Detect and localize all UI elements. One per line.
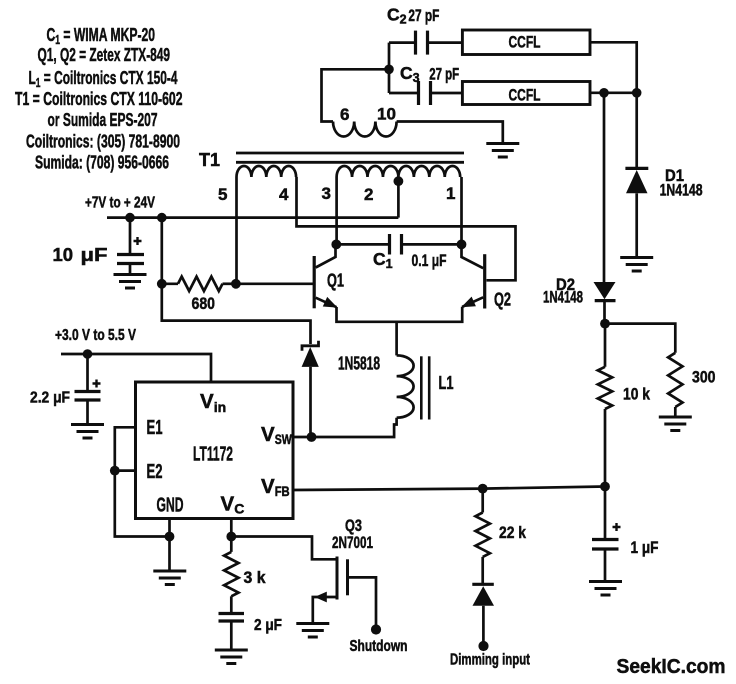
pin label 10 bbox=[377, 105, 396, 124]
svg-text:2.2 μF: 2.2 μF bbox=[30, 390, 70, 407]
node 680/pin5/Q1 base bbox=[231, 279, 241, 289]
wire winding pin 10 to ground bbox=[397, 122, 503, 143]
value label 2.2 uF bbox=[30, 390, 70, 407]
node Shutdown terminal bbox=[371, 624, 381, 634]
wire C2 left lead bbox=[389, 41, 416, 44]
pin label 5 bbox=[218, 185, 227, 204]
svg-text:1: 1 bbox=[446, 184, 455, 203]
ground (GND pin) bbox=[153, 571, 186, 585]
value label 10 uF bbox=[53, 244, 108, 265]
pin label 3 bbox=[322, 184, 331, 203]
svg-text:Coiltronics: (305) 781-8900: Coiltronics: (305) 781-8900 bbox=[26, 131, 180, 152]
svg-text:or Sumida EPS-207: or Sumida EPS-207 bbox=[48, 109, 158, 130]
value label 1N5818 bbox=[338, 354, 380, 374]
wire rail drop to 680 bbox=[160, 218, 163, 284]
svg-text:0.1 μF: 0.1 μF bbox=[412, 251, 447, 270]
node D1 top bbox=[632, 88, 642, 98]
wire GND pin bbox=[168, 519, 171, 570]
node +3V/2.2uF bbox=[83, 349, 93, 359]
label C3 bbox=[400, 63, 420, 85]
svg-text:SeekIC.com: SeekIC.com bbox=[617, 656, 726, 678]
op-amp U1 LT1172 body bbox=[136, 382, 294, 519]
pin label Vin bbox=[200, 390, 226, 415]
wire emitter rail bbox=[337, 307, 463, 322]
value label 1 uF bbox=[631, 538, 659, 557]
svg-text:10 k: 10 k bbox=[623, 385, 650, 404]
value label 1N4148 (D1) bbox=[660, 182, 703, 200]
resistor 680 bbox=[178, 277, 223, 291]
svg-text:Q3: Q3 bbox=[345, 517, 362, 535]
wire C1 left lead bbox=[336, 243, 389, 246]
value label 1N4148 (D2) bbox=[543, 289, 583, 307]
svg-text:6: 6 bbox=[340, 105, 349, 124]
svg-text:5: 5 bbox=[218, 185, 227, 204]
value label 2N7001 bbox=[332, 534, 373, 552]
supply label +7V to +24V bbox=[85, 195, 155, 212]
svg-text:4: 4 bbox=[279, 185, 289, 204]
label D2 bbox=[556, 276, 575, 294]
pin label 2 bbox=[364, 185, 373, 204]
svg-text:CCFL: CCFL bbox=[509, 87, 541, 105]
ground (1uF) bbox=[589, 582, 622, 596]
node GND bbox=[165, 532, 175, 542]
label T1 bbox=[199, 150, 220, 170]
resistor 10k bbox=[598, 367, 612, 409]
transistor Q3 source bbox=[313, 592, 337, 622]
plus mark (10uF) bbox=[134, 237, 142, 245]
node Q2 collector bbox=[457, 240, 467, 250]
label L1 bbox=[439, 373, 454, 393]
diode 1N5818 (schottky) bbox=[302, 341, 319, 367]
svg-text:Q1, Q2 = Zetex ZTX-849: Q1, Q2 = Zetex ZTX-849 bbox=[38, 44, 171, 65]
label Dimming input bbox=[450, 652, 530, 669]
svg-text:E1: E1 bbox=[147, 417, 163, 439]
svg-text:300: 300 bbox=[692, 368, 716, 387]
transistor Q1 collector bbox=[316, 244, 336, 267]
node E1/E2 bbox=[110, 466, 120, 476]
pin label E2 bbox=[147, 461, 163, 483]
transformer T1 primary winding 5-4 bbox=[237, 166, 297, 177]
inductor L1 core bbox=[421, 356, 429, 419]
svg-text:2N7001: 2N7001 bbox=[332, 534, 373, 552]
capacitor 10uF bbox=[117, 255, 144, 264]
capacitor C3 27pF bbox=[419, 81, 431, 105]
wire +3V node to 2.2uF bbox=[86, 354, 89, 392]
wire C2/C3 node to winding pin 6 bbox=[322, 69, 390, 121]
node Dimming input terminal bbox=[478, 641, 488, 651]
node Vc bbox=[226, 532, 236, 542]
pin label GND bbox=[157, 495, 184, 517]
svg-text:Sumida: (708) 956-0666: Sumida: (708) 956-0666 bbox=[35, 152, 169, 173]
capacitor 2.2uF bbox=[75, 392, 101, 401]
wire 680 left lead bbox=[162, 282, 178, 285]
label Q3 bbox=[345, 517, 362, 535]
ground (Q3 source) bbox=[296, 624, 329, 638]
wire 10uF to ground bbox=[129, 264, 132, 274]
wire 22k to dimming diode bbox=[481, 557, 484, 584]
wire 680 right lead bbox=[223, 282, 237, 285]
svg-text:L1 = Coiltronics CTX 150-4: L1 = Coiltronics CTX 150-4 bbox=[29, 67, 178, 90]
diode D2 1N4148 bbox=[594, 282, 616, 301]
node Vfb/22k bbox=[478, 484, 488, 494]
transistor Q3 gate bar bbox=[346, 559, 349, 595]
wire C2 to CCFL1 bbox=[428, 41, 463, 44]
plus mark (1uF) bbox=[613, 523, 621, 531]
svg-text:2 μF: 2 μF bbox=[254, 617, 282, 634]
svg-text:3 k: 3 k bbox=[244, 568, 266, 587]
diode D1 1N4148 bbox=[625, 168, 648, 193]
resistor 22k bbox=[476, 513, 490, 557]
svg-text:E2: E2 bbox=[147, 461, 163, 483]
ground (2uF) bbox=[215, 650, 248, 664]
value label 3 k bbox=[244, 568, 266, 587]
wire node to 22k bbox=[481, 489, 484, 513]
svg-text:10: 10 bbox=[377, 105, 396, 124]
wire D1 top lead bbox=[635, 93, 638, 168]
wire rail to 10uF bbox=[129, 218, 132, 255]
wire Vc node to 3k bbox=[230, 537, 233, 552]
wire +7V rail bbox=[107, 216, 398, 219]
svg-text:1N4148: 1N4148 bbox=[660, 182, 703, 200]
lamp CCFL1 (top) bbox=[462, 30, 590, 55]
ground (300) bbox=[659, 417, 692, 431]
ground (winding 10) bbox=[486, 144, 519, 158]
pin label Vsw bbox=[261, 423, 292, 447]
svg-text:T1: T1 bbox=[199, 150, 220, 170]
transformer T1 primary winding 3-2-1 bbox=[337, 166, 461, 177]
wire node to 300 bbox=[605, 324, 675, 353]
svg-text:1N5818: 1N5818 bbox=[338, 354, 380, 374]
pin label Vfb bbox=[261, 475, 290, 499]
label Shutdown bbox=[350, 638, 408, 655]
wire pin 3 down bbox=[335, 177, 338, 244]
svg-text:Shutdown: Shutdown bbox=[350, 638, 408, 655]
value label 680 bbox=[192, 294, 216, 313]
svg-text:3: 3 bbox=[322, 184, 331, 203]
pin label 4 bbox=[279, 185, 289, 204]
node HV return bbox=[599, 88, 609, 98]
value label 2 uF bbox=[254, 617, 282, 634]
wire Vfb to feedback node bbox=[293, 487, 605, 491]
plus mark (2.2uF) bbox=[93, 380, 101, 388]
svg-text:27 pF: 27 pF bbox=[408, 6, 439, 25]
wire base node to Q1 base bbox=[236, 282, 313, 285]
svg-text:LT1172: LT1172 bbox=[193, 443, 233, 466]
capacitor C2 27pF bbox=[416, 31, 428, 55]
label D1 bbox=[665, 167, 684, 185]
wire C3 left lead bbox=[389, 92, 419, 95]
wire Vsw pin bbox=[293, 436, 312, 439]
wire Vc node to Q3 drain bbox=[231, 537, 337, 560]
wire 1uF to ground bbox=[604, 549, 607, 580]
svg-text:Q2: Q2 bbox=[494, 290, 511, 310]
value label 27 pF (C3) bbox=[429, 65, 459, 84]
capacitor 1uF bbox=[592, 540, 619, 550]
wire 1N5818 to Vsw node bbox=[309, 367, 312, 437]
transistor Q2 collector bbox=[462, 244, 484, 268]
value label 0.1 uF bbox=[412, 251, 447, 270]
wire 3k to 2uF bbox=[230, 596, 233, 613]
pin label 6 bbox=[340, 105, 349, 124]
svg-text:T1 = Coiltronics CTX 110-602: T1 = Coiltronics CTX 110-602 bbox=[15, 88, 183, 109]
wire +3V to Vin bbox=[61, 354, 211, 382]
node rail/10uF bbox=[125, 213, 135, 223]
label Q1 bbox=[327, 271, 344, 291]
transistor Q1 base bar bbox=[313, 256, 316, 308]
transistor Q3 channel bar bbox=[336, 557, 339, 600]
wire L1 to Vsw node bbox=[312, 418, 397, 437]
transistor Q2 emitter bbox=[461, 297, 483, 308]
wire Q3 gate to shutdown bbox=[348, 577, 377, 625]
wire 2.2uF to ground bbox=[86, 400, 89, 423]
wire D1 to ground bbox=[635, 193, 638, 256]
node D2/10k/300 bbox=[600, 319, 610, 329]
wire dimming diode to terminal bbox=[482, 606, 485, 642]
svg-text:22 k: 22 k bbox=[499, 523, 526, 542]
wire C3 to CCFL2 bbox=[431, 92, 463, 95]
node 680 left bbox=[157, 279, 167, 289]
svg-text:2: 2 bbox=[364, 185, 373, 204]
svg-text:1N4148: 1N4148 bbox=[543, 289, 583, 307]
label Q2 bbox=[494, 290, 511, 310]
svg-text:27 pF: 27 pF bbox=[429, 65, 459, 84]
parts list note bbox=[15, 24, 183, 173]
wire C1 right lead bbox=[402, 243, 462, 246]
node C2/C3 junction bbox=[384, 65, 394, 75]
wire E1/E2 to GND node bbox=[115, 427, 170, 536]
node 10k/1uF bbox=[600, 482, 610, 492]
svg-text:L1: L1 bbox=[439, 373, 454, 393]
wire center tap to +7V rail bbox=[397, 181, 400, 217]
wire 680 node to 1N5818 bbox=[162, 284, 311, 344]
wire node to 1uF bbox=[604, 487, 607, 540]
svg-text:10: 10 bbox=[53, 244, 74, 265]
svg-text:1 μF: 1 μF bbox=[631, 538, 659, 557]
pin label Vc bbox=[221, 493, 245, 517]
wire emitter rail to L1 bbox=[395, 322, 398, 356]
pin label E1 bbox=[147, 417, 163, 439]
svg-text:GND: GND bbox=[157, 495, 184, 517]
label C1 bbox=[373, 249, 393, 271]
node center tap bbox=[394, 176, 404, 186]
ground (D1) bbox=[620, 258, 653, 272]
wire pin 5 to base node bbox=[235, 177, 238, 284]
svg-text:Q1: Q1 bbox=[327, 271, 344, 291]
svg-text:Dimming input: Dimming input bbox=[450, 652, 530, 669]
wire Vc pin bbox=[230, 519, 233, 537]
node Vsw bbox=[307, 432, 317, 442]
svg-text:+3.0 V to 5.5 V: +3.0 V to 5.5 V bbox=[55, 327, 137, 344]
wire 2uF to ground bbox=[230, 621, 233, 649]
wire node to 10k bbox=[604, 324, 607, 367]
node rail/680 drop bbox=[157, 213, 167, 223]
transistor Q2 base bar bbox=[483, 254, 486, 308]
wire 300 to ground bbox=[674, 407, 677, 416]
svg-text:CCFL: CCFL bbox=[509, 34, 541, 52]
wire CCFL1 right to D1 node bbox=[590, 42, 637, 93]
svg-text:680: 680 bbox=[192, 294, 216, 313]
wire CCFL2 right lead bbox=[590, 91, 637, 94]
value label 22 k bbox=[499, 523, 526, 542]
diode dimming input bbox=[472, 584, 494, 606]
value label 27 pF (C2) bbox=[408, 6, 439, 25]
resistor 3k bbox=[224, 552, 238, 596]
resistor 300 bbox=[668, 353, 682, 407]
inductor L1 bbox=[397, 355, 414, 417]
pin label 1 bbox=[446, 184, 455, 203]
transformer T1 core bbox=[236, 153, 464, 162]
capacitor C1 0.1uF bbox=[390, 234, 402, 255]
wire C2 branch riser bbox=[388, 43, 391, 93]
wire D2 to node bbox=[603, 301, 606, 324]
transformer T1 secondary winding 6-10 bbox=[333, 122, 397, 137]
supply label +3.0 V to 5.5 V bbox=[55, 327, 137, 344]
wire HV return down to D2 bbox=[603, 93, 606, 282]
ground (10uF) bbox=[114, 275, 147, 289]
wire pin 1 down bbox=[460, 177, 463, 244]
transistor Q1 emitter bbox=[316, 297, 338, 308]
node Q1 collector bbox=[331, 240, 341, 250]
wire pin 4 to Q2 base bbox=[297, 177, 516, 280]
wire 10k to FB node bbox=[604, 409, 607, 487]
svg-text:+7V to + 24V: +7V to + 24V bbox=[85, 195, 155, 212]
label C2 bbox=[387, 5, 407, 27]
capacitor 2uF bbox=[219, 614, 245, 622]
lamp CCFL2 (bottom) bbox=[462, 82, 590, 105]
watermark SeekIC.com bbox=[617, 656, 726, 678]
value label 300 bbox=[692, 368, 716, 387]
value label 10 k bbox=[623, 385, 650, 404]
ground (2.2uF) bbox=[71, 425, 104, 439]
svg-text:μF: μF bbox=[81, 244, 108, 265]
